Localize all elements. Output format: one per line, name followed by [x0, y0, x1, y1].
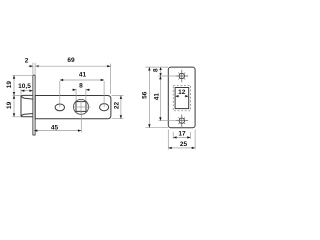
dim 69 (overall length): [35, 57, 110, 94]
dim 2 (faceplate thickness): [25, 58, 40, 75]
spindle follower circle: [74, 99, 89, 114]
dim 22 (body height): [112, 96, 124, 119]
right hole: [100, 104, 109, 111]
svg-text:10,5: 10,5: [18, 83, 31, 90]
svg-text:2: 2: [25, 58, 29, 65]
svg-text:41: 41: [79, 71, 87, 78]
svg-text:69: 69: [67, 57, 75, 64]
svg-text:22: 22: [114, 102, 121, 110]
latch bolt: [21, 95, 33, 116]
faceplate: [33, 75, 35, 135]
bottom screw hole target: [176, 115, 189, 127]
dim 12 (strike hole width): [175, 89, 189, 97]
svg-text:12: 12: [178, 89, 186, 96]
dashed latch box outline: [173, 85, 190, 111]
top screw hole target: [176, 70, 189, 82]
dim 25 (strike plate width): [168, 130, 195, 150]
dim 56 (strike plate height): [142, 67, 168, 128]
dim 8 (strike, top edge to hole): [152, 67, 175, 76]
dim 45 (faceplate to spindle center): [34, 113, 81, 133]
strike plate: [168, 67, 195, 128]
spindle square hole: [76, 102, 86, 112]
dim 19 lower (bolt height): [6, 95, 21, 116]
dim 17 (latch box width): [173, 131, 190, 139]
svg-text:56: 56: [142, 91, 149, 99]
svg-text:25: 25: [180, 141, 188, 148]
svg-text:19: 19: [6, 81, 13, 89]
latch body: [35, 96, 111, 119]
svg-text:19: 19: [6, 101, 13, 109]
strike square hole: [175, 88, 189, 109]
dim 19 upper (faceplate top to body top): [6, 75, 33, 95]
dim 41 (hole centers, main view): [60, 71, 104, 107]
left hole: [55, 104, 64, 111]
svg-text:8: 8: [152, 68, 159, 72]
dim 8 (spindle square, main view): [72, 83, 90, 102]
svg-text:8: 8: [79, 83, 83, 90]
spindle centerlines: [74, 99, 91, 115]
svg-text:17: 17: [178, 131, 186, 138]
svg-text:41: 41: [154, 93, 161, 101]
dim 41 (strike hole centers): [154, 76, 176, 121]
dim 10,5 (bolt protrusion): [18, 83, 33, 95]
